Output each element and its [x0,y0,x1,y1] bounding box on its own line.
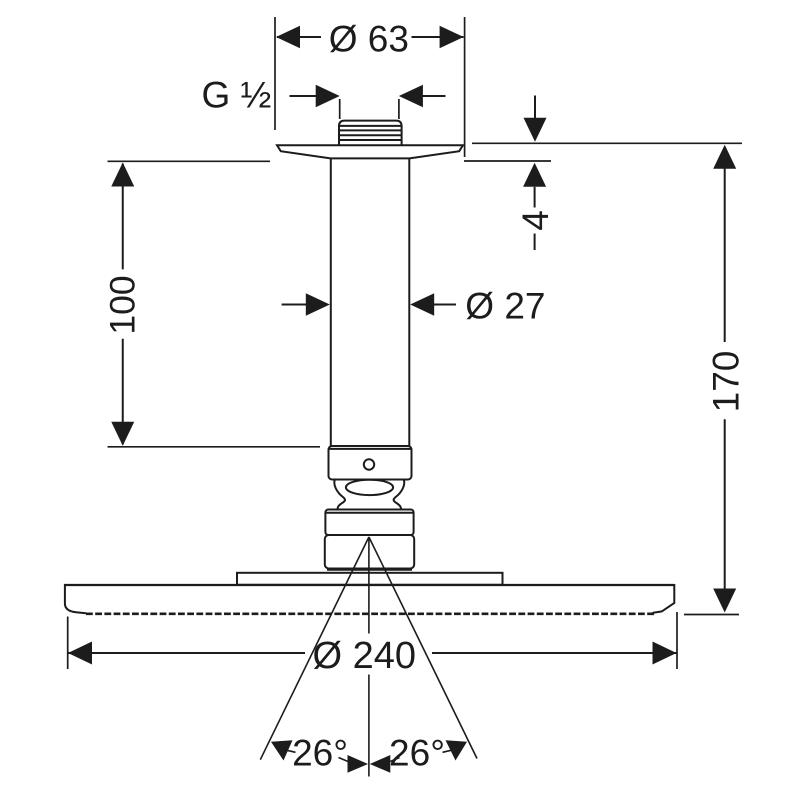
dimension 100 extension line bottom [108,446,321,448]
dimension 100 extension line top [108,160,271,162]
swivel nut inner line [325,512,413,514]
ceiling flange plate [277,145,463,158]
pipe end box inner line [329,448,412,450]
dimension 170 arrow down [713,589,736,613]
svg-text:100: 100 [102,275,142,334]
spray axis center line upper segment [368,537,370,634]
spray angle right inner arrow [370,755,391,773]
dimension 4 lower extension line [464,160,551,162]
shower head disc right edge [653,584,675,613]
mounting step plate [237,573,503,585]
G 1/2 extension line left [339,99,341,119]
dimension 100 line lower segment [122,339,124,445]
svg-text:G ½: G ½ [202,75,272,116]
spray angle right line [369,537,477,759]
dimension 4 arrow up [523,163,546,187]
dimension Ø63 extension line left [274,17,276,130]
dimension Ø240 arrow left [68,642,92,665]
spray angle left outer arrow [271,740,293,760]
dimension Ø240 extension line left [67,617,69,670]
shower head disc top edge [64,584,674,586]
dimension 170 line upper segment [724,147,726,342]
spray angle left outer stub [287,750,296,752]
dimension Ø27 arrow left pointing right [306,293,330,316]
svg-text:26°: 26° [292,732,348,773]
dimension 4 lower leader [534,187,536,208]
svg-text:26°: 26° [389,732,445,773]
spray angle left line [260,537,369,760]
svg-text:Ø 240: Ø 240 [313,635,417,677]
G 1/2 arrow right pointing left [399,85,423,108]
spray angle right inner stub [390,758,399,762]
dimension 4 tail line [534,234,536,251]
dimension Ø63 line right segment [412,36,464,38]
swivel nut [325,510,413,536]
shower head spray face dashed line [86,612,654,615]
dimension 4 upper extension line [472,142,742,144]
dimension 100 arrow up [111,163,134,187]
svg-text:4: 4 [515,210,556,231]
dimension Ø240 extension line right [676,612,678,669]
dimension 4 arrow down [524,118,547,142]
ball joint right outline [394,480,405,510]
spray angle left inner stub [339,758,349,762]
dimension Ø240 line left segment [68,652,305,654]
G 1/2 extension line right [398,99,400,119]
svg-text:Ø 63: Ø 63 [329,19,409,60]
dimension Ø240 line right segment [432,652,677,654]
spray axis center line lower segment [368,675,370,777]
svg-text:Ø 27: Ø 27 [465,286,545,327]
lower hub cylinder [325,535,414,569]
spray angle left inner arrow [348,755,369,773]
dimension Ø63 arrow left [276,26,300,49]
lower hub bottom edge [327,568,412,571]
connection pipe left edge [330,158,332,446]
dimension 100 line upper segment [122,164,124,270]
connection pipe right edge [408,158,410,446]
G 1/2 leader line left [290,95,319,97]
thread line 1 [339,125,402,127]
dimension 100 arrow down [111,422,134,446]
dimension Ø63 arrow right [440,26,464,49]
dimension 170 line lower segment [724,419,726,590]
thread line 2 [339,129,402,131]
dimension Ø27 leader right [433,304,456,306]
pipe end box hole [364,459,374,469]
dimension Ø63 extension line right [464,17,466,157]
shower head disc left edge [65,584,86,613]
G 1/2 leader line right [421,95,446,97]
dimension Ø63 line left segment [277,36,321,38]
dimension 170 arrow up [713,145,736,169]
ball joint left outline [334,480,345,510]
G 1/2 arrow left pointing right [316,85,340,108]
svg-text:170: 170 [706,351,747,413]
dimension Ø27 leader left [282,304,307,306]
thread line 4 [339,139,402,141]
dimension Ø27 arrow right pointing left [410,293,434,316]
thread line 3 [339,134,402,136]
spray angle right outer arrow [446,740,468,760]
threaded connector cap [339,121,402,145]
spray angle right outer stub [443,750,452,752]
pipe end box [329,446,412,480]
ball joint ball [346,480,393,495]
dimension Ø240 arrow right [653,642,677,665]
dimension 170 bottom extension line [684,614,739,616]
dimension 4 upper leader [534,96,536,120]
